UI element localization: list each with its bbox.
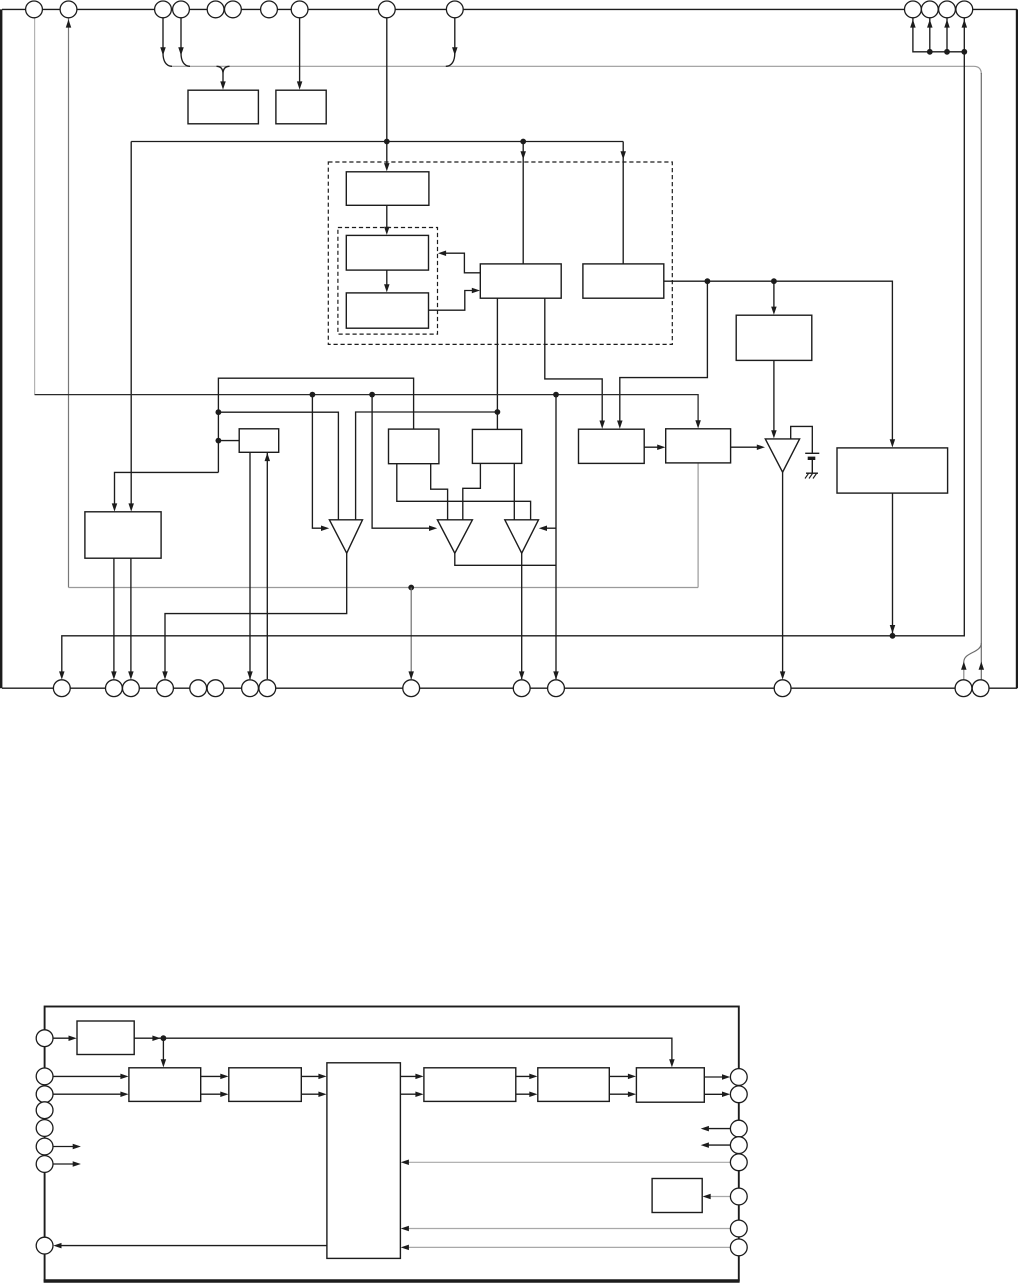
wire pin L2 to box Q [53, 1075, 124, 1077]
pin circle L7 [36, 1156, 53, 1173]
arrow up into pin14 [944, 19, 950, 27]
arrow left into T3 right [539, 525, 547, 531]
pin circle P12 [905, 1, 922, 18]
wire y412 segment A to T1 [218, 412, 338, 519]
arrow right stub L6 [73, 1144, 81, 1150]
arrow down pin4 [178, 47, 184, 55]
pin circle R3 [730, 1120, 747, 1137]
pin circle B11 [548, 680, 565, 697]
junction dot bus x930 [927, 49, 933, 55]
wire box J out2 to T2 [431, 464, 448, 520]
junction dot row1 x387 [384, 139, 390, 145]
pin circle P1 [26, 1, 43, 18]
arrow right into box T lower [529, 1091, 537, 1097]
stub arrow pin L6 [53, 1146, 77, 1148]
wire riser U-link to box J [218, 378, 413, 472]
wire T4 output to pin [782, 472, 784, 675]
arrow down into box A [384, 163, 390, 171]
wire top-right pin14 drop [946, 18, 948, 52]
wire pin1 gray drop [34, 18, 36, 395]
pin circle R8 [730, 1239, 747, 1256]
arrow right into box R lower [220, 1091, 228, 1097]
comparator T1 [329, 520, 362, 553]
block box L [579, 429, 645, 463]
arrow down into pin x250 [247, 671, 253, 679]
arrow down pin10 [452, 47, 458, 55]
arrow left into box B right [438, 250, 446, 256]
arrow right into pin R2 [722, 1092, 730, 1098]
stub arrow pin R4 [705, 1144, 730, 1146]
arrow right into box P [69, 1035, 77, 1041]
gray wire pin R8 to box U [405, 1246, 730, 1248]
gray stub above left bottom-right pin [963, 661, 965, 679]
arrow down into box M top [695, 420, 701, 428]
arrow right into box Q lower [120, 1091, 128, 1097]
wire box S to box T upper [516, 1075, 534, 1077]
junction dot E-row x707 [705, 278, 711, 284]
block box 2 [276, 90, 326, 124]
wire box L to box M [643, 446, 645, 448]
wire pin3 drop with hook [163, 18, 172, 67]
arrow down into box 1 [220, 81, 226, 89]
arrow down into box G top from row1 [128, 503, 134, 511]
ground symbol bar [806, 472, 818, 474]
IC1 bottom bus line [2, 687, 1017, 689]
pin circle L1 [36, 1030, 53, 1047]
arrow down into box 2 [297, 81, 303, 89]
wire pin10 drop with hook [446, 18, 455, 67]
arrow down into pin x114 [111, 671, 117, 679]
block box M [666, 429, 731, 463]
wire box R to box U upper [301, 1075, 322, 1077]
wire box W to pin R2 [704, 1093, 726, 1095]
arrow right into box M left [657, 444, 665, 450]
gray wire pin R7 to box U [405, 1228, 730, 1230]
block box T [538, 1068, 610, 1102]
wire top-right pin13 drop [929, 18, 931, 52]
arrow up into S-curve [961, 662, 967, 670]
wire pin up into box H [266, 453, 268, 679]
arrow right into box D left [472, 288, 480, 294]
arrow down into bottom pin x411 [408, 671, 414, 679]
wire E-row branch to box L right input [620, 281, 708, 424]
junction dot top line [161, 1035, 167, 1041]
wire box G out1 to pin [113, 558, 115, 675]
arrow down into box L right-top [617, 421, 623, 429]
pin circle L2 [36, 1068, 53, 1085]
comparator T4 [765, 439, 799, 472]
arrow down pin3 [160, 47, 166, 55]
arrow right into box G top from riser [112, 503, 118, 511]
block box 1 [188, 90, 258, 124]
wire box U to box S lower [400, 1093, 419, 1095]
pin circle B10 [513, 680, 530, 697]
arrow up into rail right vertical [979, 662, 985, 670]
wire box T to box W upper [609, 1075, 632, 1077]
IC2 outer border [45, 1007, 739, 1281]
arrow down into box W top [669, 1059, 675, 1067]
arrow down into box F top [771, 307, 777, 315]
pin circle B12 [774, 680, 791, 697]
block box G [85, 512, 161, 558]
arrow down into pin x131 [128, 671, 134, 679]
block box V [652, 1179, 702, 1213]
wire box C to box D [429, 291, 476, 311]
wire T2 output elbow [455, 553, 556, 565]
arrow right into box S lower [415, 1091, 423, 1097]
arrow down on box N output [890, 625, 896, 633]
wire box G out2 to pin [130, 558, 132, 675]
wire pin4 drop with hook [181, 18, 190, 67]
capacitor C1 lower lead [811, 460, 813, 473]
junction dot bus x947 [944, 49, 950, 55]
arrow left into box U right y1228 [401, 1226, 409, 1232]
wire box A to box B [386, 205, 388, 230]
arrow right into box R upper [220, 1074, 228, 1080]
wire box K out1 to T2 [463, 463, 481, 519]
pin circle B5 [190, 680, 207, 697]
block box Q [129, 1068, 201, 1102]
wire T2 left input [372, 395, 433, 529]
junction dot E-row x774 [771, 278, 777, 284]
arrow left into pin L8 [53, 1243, 61, 1249]
wire T3 output to pin [521, 553, 523, 679]
junction dot riser y412 [216, 409, 222, 415]
wire rail Y-dip into box 1 [217, 66, 230, 84]
wire riser elbow to box G [115, 472, 219, 507]
capacitor C1 top plate [805, 452, 819, 454]
wire y412 segment B from box D drop to T1 [356, 412, 498, 520]
arrow down box C input [384, 284, 390, 292]
arrow down into box Q top [161, 1059, 167, 1067]
arrow up into pin15 [962, 19, 968, 27]
wire box B to box C [386, 270, 388, 288]
comparator T2 [437, 520, 472, 553]
arrow down into pin x520 [519, 671, 525, 679]
wire box F to comparator T4 [773, 360, 775, 434]
wire pin2 vertical to gray bottom rail [68, 18, 70, 588]
wire top-right bus [913, 18, 964, 52]
junction dot y395 x556 [553, 392, 559, 398]
comparator T3 [505, 520, 539, 553]
pin circle B3 [122, 680, 139, 697]
junction dot y636 x892 [890, 633, 896, 639]
arrow left stub R4 [701, 1142, 709, 1148]
wire box K out2 to T3 [513, 463, 515, 519]
pin circle L3 [36, 1086, 53, 1103]
pin circle L6 [36, 1138, 53, 1155]
pin circle B13 [955, 680, 972, 697]
arrow left stub R3 [701, 1126, 709, 1132]
block box P [77, 1021, 134, 1055]
wire pin L3 to box Q [53, 1093, 124, 1095]
wire box N output to y636 [892, 493, 894, 636]
pin circle R5 [730, 1154, 747, 1171]
arrow left into box U right y1162 [401, 1160, 409, 1166]
arrow up into pin2 [66, 19, 72, 27]
gray rail right vertical [980, 73, 982, 679]
junction dot bus x964 [961, 49, 967, 55]
pin circle P6 [225, 1, 242, 18]
block box U (large center) [327, 1063, 401, 1259]
wire riser to box H left [218, 440, 239, 442]
wire box D out1 down [496, 298, 498, 429]
wire pin L1 to box P [53, 1037, 72, 1039]
pin circle L4 [36, 1102, 53, 1119]
wire node drop into box Q [162, 1038, 164, 1063]
pin circle B6 [207, 680, 224, 697]
arrow right into box U lower [318, 1091, 326, 1097]
block box R [229, 1068, 301, 1102]
arrow up into pin13 [927, 19, 933, 27]
block box J [389, 429, 439, 464]
arrow left into box U right y1247 [401, 1245, 409, 1251]
capacitor C1 bottom plate (thick) [808, 457, 816, 460]
IC1 top border [2, 8, 1017, 10]
stub arrow pin L7 [53, 1163, 77, 1165]
arrow right into T1 left [321, 525, 329, 531]
wire box E out row [664, 281, 893, 443]
pin circle P2 [60, 1, 77, 18]
IC1 left border (thick) [0, 9, 2, 688]
junction dot row1 x523 [520, 139, 526, 145]
arrow right into T2 left [429, 525, 437, 531]
pin circle B2 [106, 680, 123, 697]
wire row1 left leg to box G [130, 142, 132, 508]
pin circle B8 [259, 680, 276, 697]
pin circle R6 [730, 1188, 747, 1205]
dashed group outer [328, 162, 672, 344]
wire box H out to pin [249, 452, 251, 679]
pin circle P4 [173, 1, 190, 18]
wire T3 right input riser to bottom pin [555, 395, 557, 679]
wire row1 horizontal [131, 141, 623, 143]
pin circle R2 [730, 1086, 747, 1103]
arrow down into T4 top [771, 430, 777, 438]
block box F [736, 315, 812, 360]
wire box M bottom gray [697, 463, 699, 588]
pin circle B7 [242, 680, 259, 697]
wire box J out1 to T3 [397, 464, 531, 520]
gray bottom rail horizontal [69, 587, 699, 589]
gray rail top horizontal [171, 66, 981, 74]
pin circle B9 [403, 680, 420, 697]
arrow right into box U upper [318, 1074, 326, 1080]
arrow down into pin x165 [162, 671, 168, 679]
arrow mid on box E drop [620, 151, 626, 159]
junction dot y395 x372 [369, 392, 375, 398]
block box E [583, 264, 664, 298]
block box W [636, 1068, 704, 1102]
block box S [424, 1068, 516, 1102]
pin circle B14 [972, 680, 989, 697]
wire mid rail y395 [35, 395, 699, 424]
pin circle P5 [207, 1, 224, 18]
gray wire pin R5 to box U [405, 1161, 730, 1163]
wire box D feedback to box B [445, 253, 481, 273]
pin circle P9 [378, 1, 395, 18]
wire box M to T4 [731, 446, 762, 448]
arrow right into T4 left [757, 444, 765, 450]
arrow down into pin x783 [780, 671, 786, 679]
wire row1 right leg to box E top [622, 142, 624, 264]
pin circle P14 [939, 1, 956, 18]
pin circle R1 [730, 1069, 747, 1086]
wire box W to pin R1 [704, 1076, 726, 1078]
arrow down into pin x555 [553, 671, 559, 679]
IC2 bottom border thick [44, 1279, 740, 1282]
gray wire pin R6 to box V [707, 1196, 731, 1198]
wire box S to box T lower [516, 1093, 534, 1095]
arrow right into box Q upper [120, 1074, 128, 1080]
block box K [472, 429, 521, 463]
wire T3 right input branch [543, 527, 556, 529]
wire box T to box W lower [609, 1093, 632, 1095]
arrow down into pin x61 [59, 671, 65, 679]
pin circle P8 [291, 1, 308, 18]
junction dot box D drop y412 [495, 409, 501, 415]
pin circle P3 [155, 1, 172, 18]
block box N [837, 448, 948, 493]
wire T1 output elbow to pin [165, 553, 347, 675]
wire box R to box U lower [301, 1093, 322, 1095]
arrow right into box W upper [628, 1074, 636, 1080]
arrow mid on box D drop [520, 151, 526, 159]
gray rail S-curve branch to pin [964, 643, 982, 662]
stub arrow pin R3 [705, 1128, 730, 1130]
pin circle L5 [36, 1120, 53, 1137]
arrow up into pin12 [910, 19, 916, 27]
junction dot on gray rail [408, 585, 414, 591]
arrow up into box H bottom [265, 453, 271, 461]
dashed group inner [338, 228, 438, 335]
arrow down into box L left-top [599, 421, 605, 429]
pin circle B1 [53, 680, 70, 697]
wire box U to pin L8 [58, 1245, 327, 1247]
wire gray rail to bottom pin [410, 588, 412, 680]
wire box Q to box R lower [201, 1093, 225, 1095]
pin circle R7 [730, 1220, 747, 1237]
pin circle P10 [446, 1, 463, 18]
wire T1 left input [312, 395, 325, 529]
block box C [346, 293, 428, 328]
capacitor feed elbow from T4 [791, 426, 813, 453]
wire pin8 drop to box 2 [299, 18, 301, 85]
junction dot riser y441 [216, 438, 222, 444]
wire top-right pin15 drop [963, 18, 965, 52]
arrow down box B input [384, 227, 390, 235]
ground symbol hatches [805, 474, 817, 479]
wire E-row branch to box F [773, 281, 775, 310]
arrow right stub L7 [73, 1161, 81, 1167]
IC1 right border (thick) [1016, 9, 1018, 688]
arrow down into box N top [890, 439, 896, 447]
pin circle R4 [730, 1137, 747, 1154]
arrow right into pin R1 [722, 1074, 730, 1080]
arrow right into box T upper [529, 1074, 537, 1080]
wire box Q to box R upper [201, 1075, 225, 1077]
arrow right into box W lower [628, 1091, 636, 1097]
block box H [239, 429, 279, 453]
block box B [346, 235, 428, 270]
wire box P output long top line to box W [134, 1038, 672, 1063]
block box D [480, 264, 561, 298]
pin circle B4 [157, 680, 174, 697]
wire pin9 drop to node row1 [386, 18, 388, 167]
arrow right into box S upper [415, 1074, 423, 1080]
wire bottom row y636 [62, 52, 965, 675]
wire row1 to box D top [522, 142, 524, 264]
wire box U to box S upper [400, 1075, 419, 1077]
pin circle P13 [921, 1, 938, 18]
pin circle L8 [36, 1237, 53, 1254]
wire box D out2 to box L [545, 298, 602, 424]
arrow right before node on top line [152, 1035, 160, 1041]
pin circle P7 [261, 1, 278, 18]
block box A [346, 172, 429, 206]
pin circle P15 [956, 1, 973, 18]
junction dot y395 x312 [310, 392, 316, 398]
arrow left into box V right [703, 1194, 711, 1200]
